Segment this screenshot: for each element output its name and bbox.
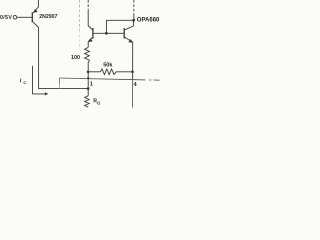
node dot pin1 50k junction [87, 70, 90, 73]
chip boundary left edge faint [59, 84, 61, 89]
svg-text:0/5V: 0/5V [0, 15, 12, 21]
left rail solid [87, 10, 89, 26]
wire 50k right segment [116, 71, 133, 73]
current arrow IC [33, 66, 47, 94]
transistor Q1 2N2907 base bar [31, 12, 33, 22]
mirror transistor Q3 base bar [123, 28, 125, 39]
node dot pin4 [131, 70, 134, 73]
resistor 100 zigzag [85, 47, 90, 62]
faint dashed internal line [79, 0, 81, 30]
wire 50k left segment [88, 71, 100, 73]
wire base of Q1 [17, 16, 32, 18]
transistor Q1 emitter arrow [33, 9, 38, 13]
svg-text:50k: 50k [103, 63, 113, 69]
chip boundary chain line [59, 0, 159, 89]
svg-text:1: 1 [90, 82, 93, 88]
svg-text:Q: Q [97, 101, 100, 105]
left rail dashed top [87, 0, 89, 10]
current arrow IC head [45, 92, 48, 95]
base wire between mirror transistors [93, 32, 124, 34]
mirror transistor Q3 emitter arrow [128, 39, 133, 43]
mirror transistor Q2 emitter arrow [88, 38, 93, 42]
svg-text:C: C [23, 80, 26, 85]
resistor RQ zigzag [85, 96, 90, 107]
svg-text:I: I [20, 79, 22, 85]
right rail dashed top [133, 0, 135, 14]
svg-text:OPA660: OPA660 [137, 17, 160, 23]
mirror transistor Q3 emitter diagonal [124, 37, 133, 42]
top wire to OPA660 node [106, 20, 133, 33]
faint dashed internal line lower [78, 30, 80, 50]
svg-text:100: 100 [71, 55, 80, 61]
transistor Q1 collector [33, 22, 88, 89]
node dot OPA660 [132, 19, 135, 22]
resistor 50k zigzag [100, 69, 116, 75]
wire resistor 100 to RQ [87, 63, 89, 96]
input terminal circle [13, 15, 17, 19]
svg-text:4: 4 [134, 82, 137, 88]
node dot base junction [105, 32, 108, 35]
node dot collector junction [87, 87, 90, 90]
node dot boundary pin1 [87, 77, 89, 79]
wire emitter Q2 to resistor 100 [87, 42, 89, 48]
chip boundary left edge [59, 78, 61, 84]
mirror transistor Q2 emitter diagonal [88, 37, 93, 42]
right rail solid to node [133, 14, 135, 21]
transistor Q1 emitter [33, 0, 39, 13]
wire pin4 rail lower faint [132, 80, 134, 107]
wire Q3 emitter down to pin4 [132, 42, 134, 80]
mirror transistor Q2 base bar [92, 28, 94, 39]
mirror transistor Q2 collector diagonal [88, 26, 93, 30]
svg-text:2N2907: 2N2907 [39, 14, 57, 20]
mirror transistor Q3 collector [124, 20, 133, 30]
